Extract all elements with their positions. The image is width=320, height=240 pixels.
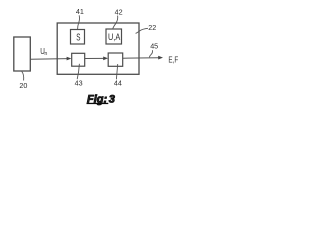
arrowhead output xyxy=(158,56,163,60)
svg-text:n: n xyxy=(44,51,47,57)
leader 41 xyxy=(78,15,80,29)
outer box 22 (control unit) xyxy=(57,23,139,74)
svg-text:42: 42 xyxy=(115,8,123,17)
wire Un input xyxy=(30,58,68,61)
block 44 xyxy=(108,53,123,66)
leader 42 xyxy=(113,16,118,29)
svg-text:3: 3 xyxy=(109,93,115,105)
block S xyxy=(71,30,85,45)
leader 43 xyxy=(77,64,79,79)
leader 20 xyxy=(22,72,24,81)
block 43 xyxy=(72,53,85,66)
caption underline xyxy=(87,103,109,104)
arrowhead into block 44 xyxy=(103,57,108,61)
wire output E,F xyxy=(123,57,159,60)
svg-text:43: 43 xyxy=(75,79,83,88)
svg-text:45: 45 xyxy=(150,42,158,51)
arrowhead into block 43 xyxy=(67,57,72,61)
wire 43 to 44 xyxy=(85,57,105,59)
block 20 (left input box) xyxy=(14,37,31,71)
svg-text:E,F: E,F xyxy=(168,55,178,65)
svg-text:S: S xyxy=(76,33,80,44)
figure caption Fig. 3 xyxy=(87,93,115,105)
block U,A xyxy=(106,29,122,44)
svg-text:22: 22 xyxy=(148,23,156,32)
svg-text:U,A: U,A xyxy=(108,32,121,43)
svg-text:20: 20 xyxy=(19,81,27,90)
svg-text:44: 44 xyxy=(114,79,122,88)
leader 22 xyxy=(136,28,148,33)
svg-text:41: 41 xyxy=(76,7,84,16)
leader 45 xyxy=(149,50,152,57)
leader 44 xyxy=(116,64,117,79)
